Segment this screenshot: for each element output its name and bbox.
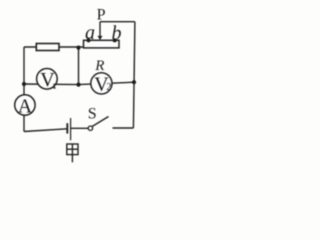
- svg-text:b: b: [112, 22, 122, 44]
- svg-text:P: P: [97, 7, 106, 24]
- svg-text:V: V: [40, 69, 55, 91]
- svg-text:2: 2: [106, 82, 111, 93]
- svg-text:S: S: [88, 106, 97, 123]
- svg-text:R: R: [94, 58, 104, 74]
- svg-text:A: A: [18, 95, 33, 117]
- svg-text:a: a: [85, 22, 95, 44]
